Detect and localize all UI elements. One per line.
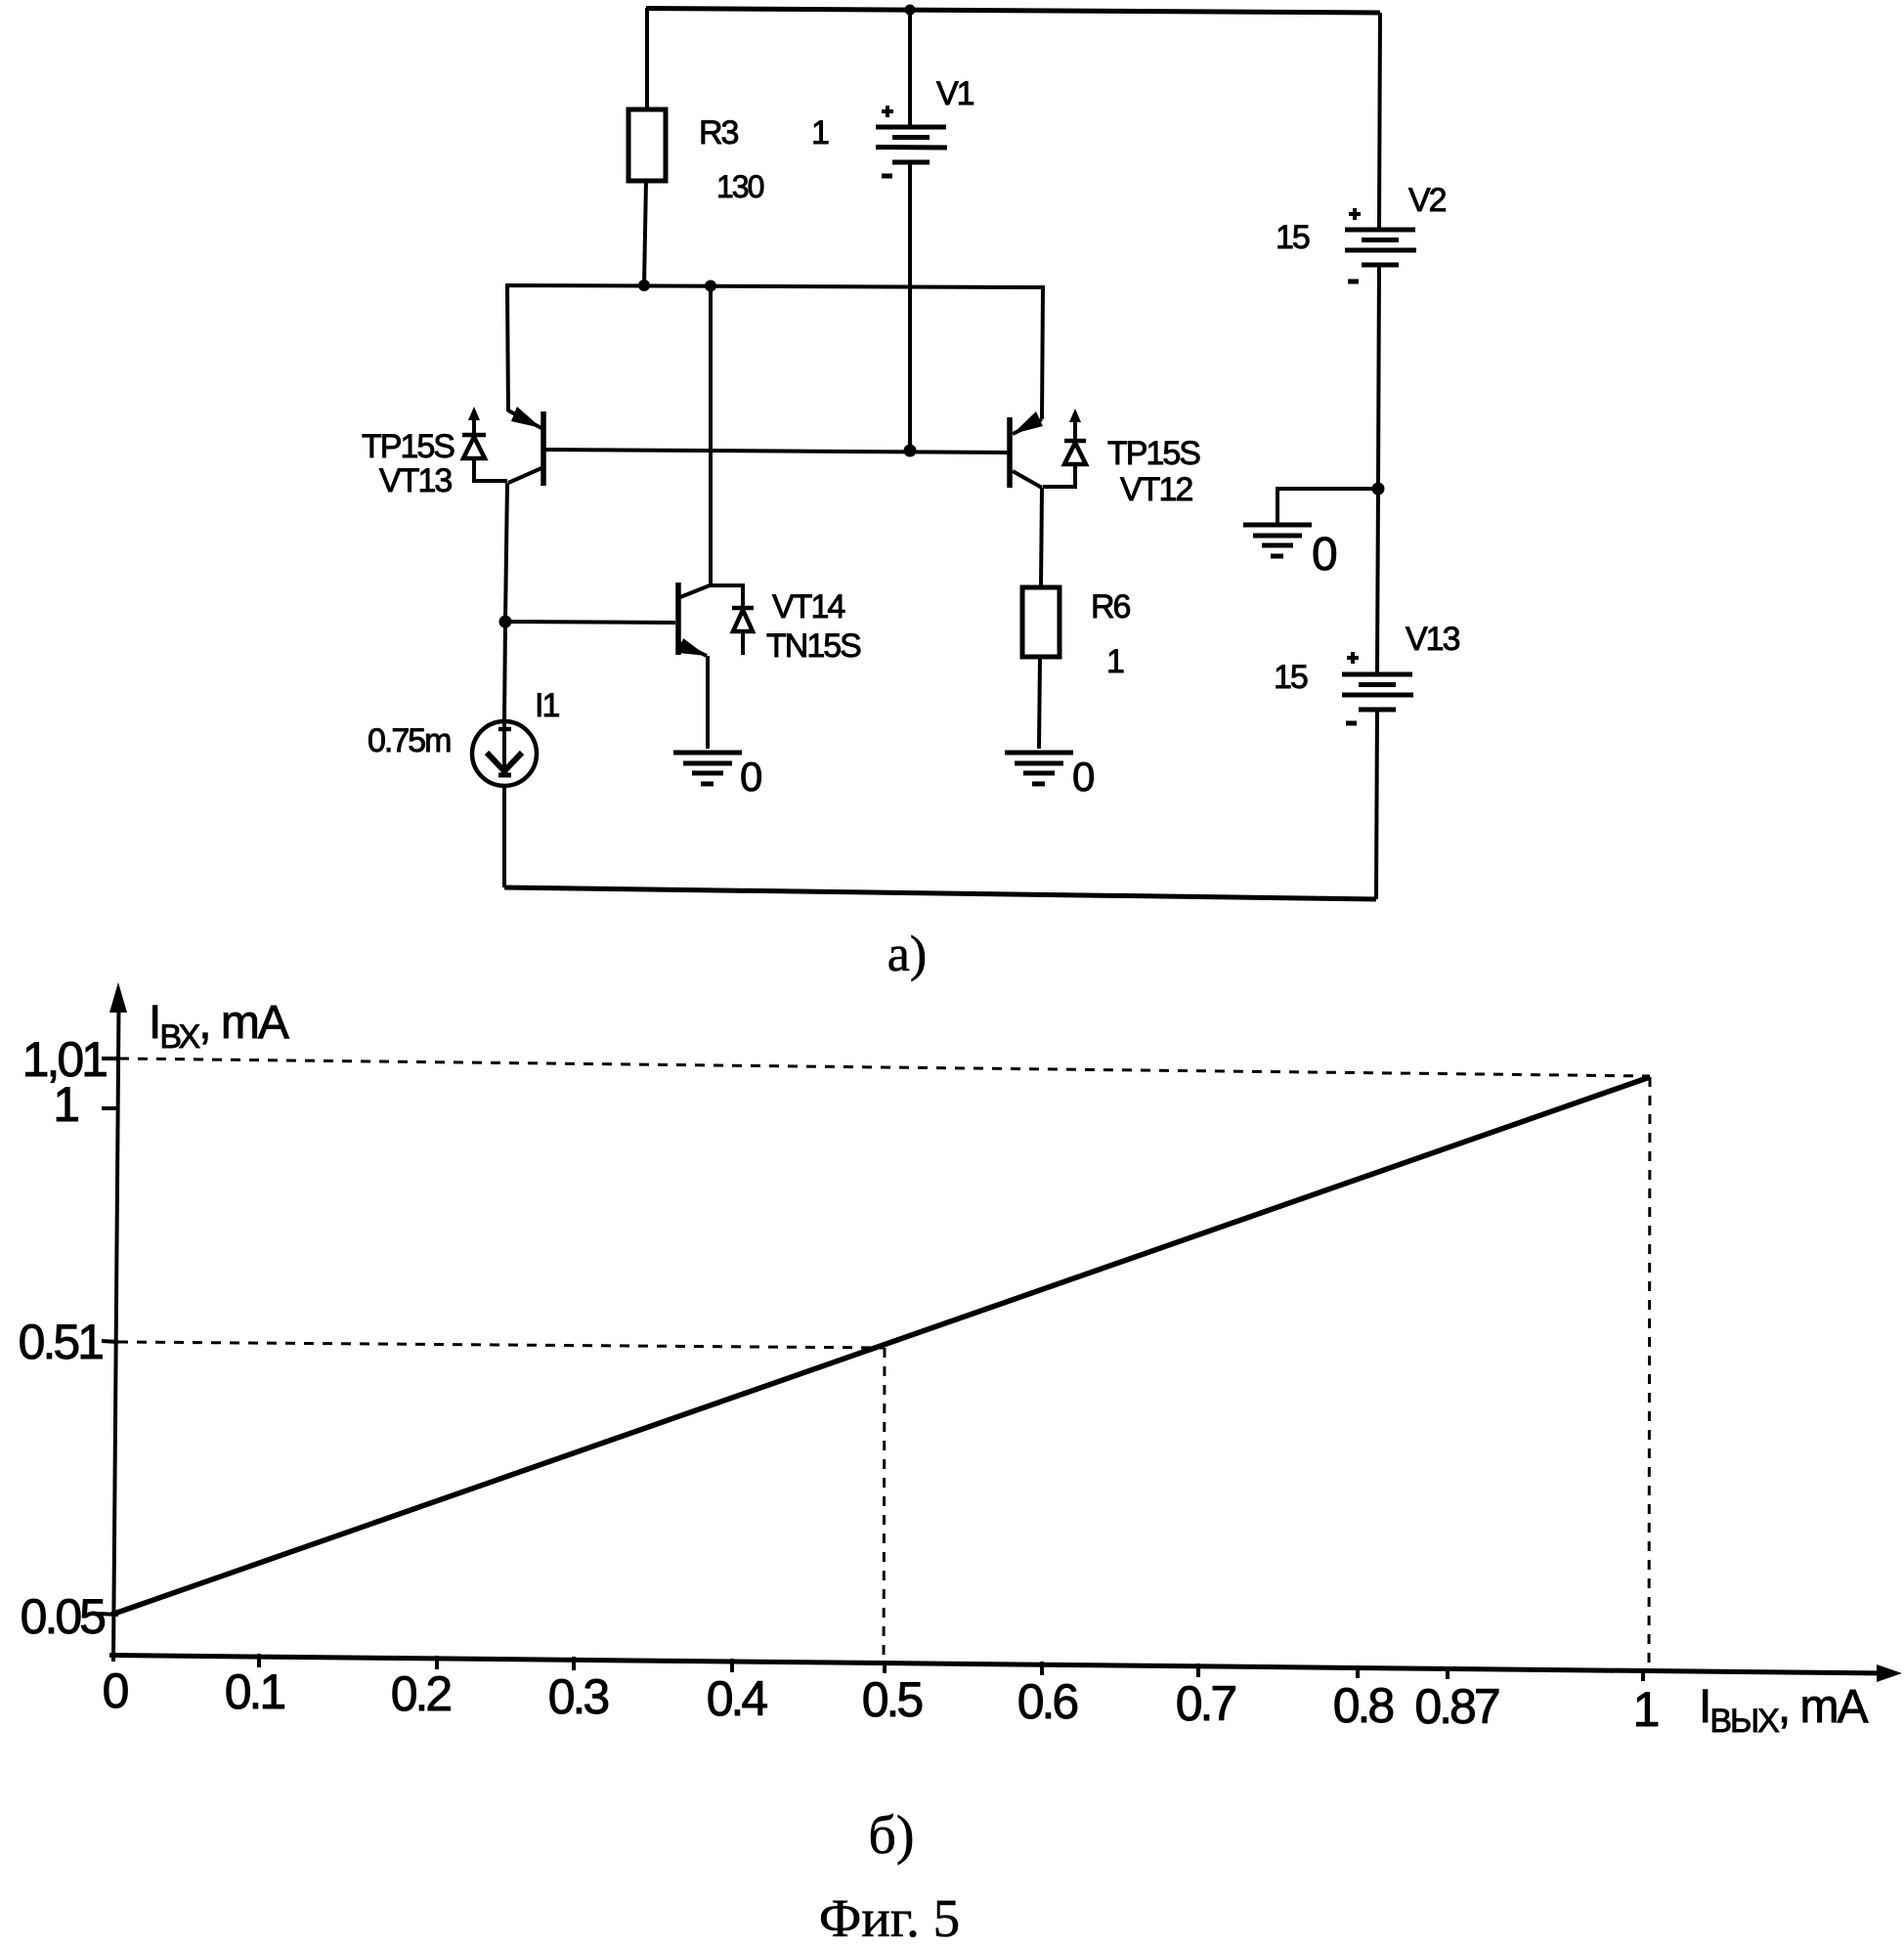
voltage source V2: [1345, 208, 1416, 489]
wire R6 to ground: [1039, 657, 1040, 749]
svg-text:0: 0: [1072, 754, 1094, 799]
svg-text:1: 1: [53, 1077, 78, 1132]
svg-text:VT13: VT13: [379, 462, 452, 499]
wire bottom rail: [504, 887, 1376, 899]
ground 0 at R6: [1005, 753, 1073, 784]
node junction dot R3/bus: [638, 280, 650, 291]
svg-text:б): б): [868, 1805, 914, 1866]
svg-text:0.51: 0.51: [19, 1315, 104, 1369]
transistor VT13: [508, 407, 543, 486]
svg-text:0.6: 0.6: [1017, 1674, 1078, 1729]
wire V2 to V13: [1377, 489, 1378, 674]
svg-text:V1: V1: [936, 75, 974, 112]
svg-text:R3: R3: [699, 114, 739, 151]
svg-text:0.87: 0.87: [1414, 1679, 1499, 1734]
wire collector bus with end drops: [507, 285, 1043, 419]
svg-text:0.1: 0.1: [225, 1664, 285, 1719]
svg-text:VT12: VT12: [1120, 471, 1192, 508]
svg-text:0.2: 0.2: [391, 1666, 452, 1721]
svg-text:R6: R6: [1091, 588, 1131, 626]
dashed level 1.01: [119, 1058, 1650, 1076]
diode TP15S at VT12: [1043, 409, 1086, 487]
svg-text:1: 1: [1633, 1682, 1659, 1737]
node junction dot top rail / V1: [905, 5, 916, 16]
x axis: [109, 1656, 1884, 1674]
node junction dot input node: [499, 616, 512, 628]
node junction dot bus/VT14 collector: [705, 281, 716, 292]
ground 0 at V2 minus: [1243, 525, 1312, 556]
svg-text:V2: V2: [1408, 182, 1447, 219]
wire VT14 emitter to ground: [706, 656, 710, 749]
diode TN15S at VT14: [732, 608, 754, 655]
wire node to I1: [504, 622, 505, 721]
transistor VT14: [678, 583, 710, 656]
y axis tick 0.51: [102, 1341, 118, 1342]
svg-text:0: 0: [103, 1663, 128, 1718]
svg-text:15: 15: [1274, 659, 1308, 696]
svg-text:0.3: 0.3: [548, 1669, 609, 1724]
svg-text:Фиг. 5: Фиг. 5: [819, 1888, 960, 1944]
y axis: [113, 1007, 119, 1662]
transfer characteristic line: [111, 1077, 1650, 1615]
wire top rail: [646, 9, 1380, 14]
x axis ticks: [259, 1654, 1643, 1681]
svg-text:0.5: 0.5: [862, 1672, 923, 1727]
svg-text:1: 1: [1106, 643, 1124, 680]
diode TP15S at VT13: [462, 407, 507, 481]
wire top-left drop to R3: [645, 8, 649, 111]
svg-text:TP15S: TP15S: [362, 428, 454, 465]
dashed vertical at 1.0: [1649, 1077, 1650, 1667]
svg-text:130: 130: [716, 169, 764, 204]
dashed level 0.51: [118, 1342, 885, 1348]
svg-text:0.7: 0.7: [1176, 1676, 1236, 1731]
y axis tick 0.05: [99, 1614, 118, 1615]
wire junction to ground 0: [1277, 489, 1378, 523]
wire R3 to bus: [644, 181, 646, 285]
svg-text:0.4: 0.4: [707, 1671, 768, 1726]
voltage source V1: [876, 9, 947, 451]
wire VT14 collector to diode TN15S: [710, 585, 743, 608]
svg-text:0.05: 0.05: [21, 1589, 106, 1644]
svg-text:0.8: 0.8: [1333, 1678, 1394, 1733]
svg-text:0: 0: [1312, 529, 1336, 581]
wire base bus: [545, 450, 1008, 453]
wire VT14 collector: [709, 285, 713, 585]
svg-text:15: 15: [1276, 219, 1310, 256]
wire VT13 collector to node: [505, 483, 507, 622]
y axis tick 1.01: [102, 1057, 118, 1060]
wire node to VT14 base: [505, 622, 675, 623]
ground 0 at VT14 emitter: [673, 753, 742, 784]
node junction dot V1/base bus: [904, 445, 917, 457]
wire VT12 collector to R6: [1041, 488, 1042, 587]
svg-text:I1: I1: [535, 687, 559, 724]
svg-text:0.75m: 0.75m: [368, 722, 451, 759]
transistor VT12: [1010, 411, 1043, 488]
svg-text:TP15S: TP15S: [1107, 435, 1200, 472]
svg-text:а): а): [887, 927, 927, 982]
resistor R6: [1022, 587, 1060, 657]
y axis tick 1: [102, 1106, 118, 1110]
y axis arrowhead: [109, 982, 127, 1013]
node junction dot V2/V13/ground: [1372, 483, 1385, 496]
resistor R3: [628, 109, 666, 181]
dashed vertical at 0.5: [884, 1348, 885, 1663]
current source I1: [472, 721, 537, 786]
svg-text:TN15S: TN15S: [766, 627, 861, 665]
wire I1 to bottom rail: [502, 786, 506, 887]
svg-text:0: 0: [740, 754, 761, 799]
svg-text:VT14: VT14: [772, 588, 844, 626]
svg-text:V13: V13: [1406, 621, 1460, 658]
x axis arrowhead: [1877, 1664, 1902, 1682]
wire right rail top segment: [1379, 13, 1380, 230]
svg-text:1: 1: [811, 114, 829, 151]
voltage source V13: [1342, 652, 1413, 899]
